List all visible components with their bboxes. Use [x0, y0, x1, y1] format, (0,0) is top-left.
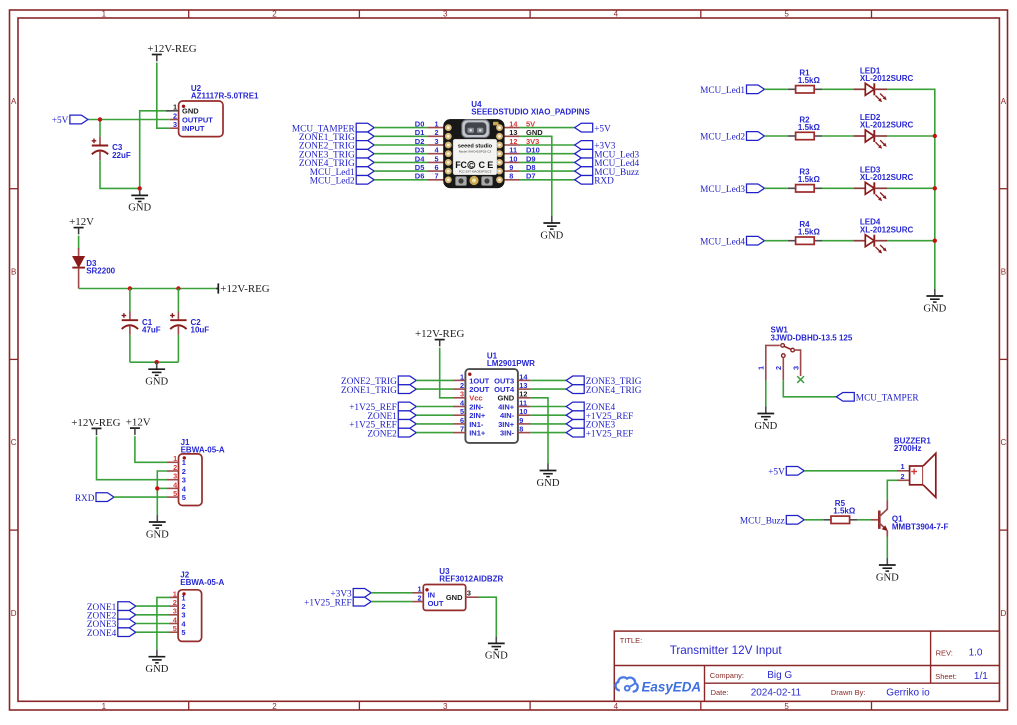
wire MCU_Led1 to R1: [765, 88, 788, 90]
wire J1 pin 4 tap: [157, 487, 167, 489]
wire +12V to D3 anode: [78, 236, 80, 250]
svg-text:GND: GND: [182, 107, 199, 116]
wire +1V25_REF to U1: [416, 423, 453, 425]
net flag ZONE2 (U1 left): [367, 428, 416, 439]
svg-text:5: 5: [182, 493, 186, 502]
svg-text:Vcc: Vcc: [469, 394, 482, 403]
svg-text:MCU_Led2: MCU_Led2: [310, 177, 355, 187]
wire MCU_Led2 to U4 pin 7: [374, 179, 428, 181]
svg-text:GND: GND: [498, 394, 515, 403]
svg-text:GND: GND: [540, 230, 563, 241]
svg-text:2024-02-11: 2024-02-11: [751, 687, 802, 698]
svg-text:XL-2012SURC: XL-2012SURC: [860, 121, 914, 130]
ground below C1/C2: [145, 362, 168, 387]
power flag +12V-REG (rail tap): [216, 283, 270, 295]
svg-text:5: 5: [173, 489, 177, 498]
svg-text:Date:: Date:: [711, 688, 729, 697]
junction C1 top: [128, 286, 132, 290]
capacitor C2 10uF: [170, 312, 209, 335]
wire MCU_Buzz to R5: [804, 519, 823, 521]
capacitor C1 47uF: [122, 312, 161, 335]
svg-text:ZONE4: ZONE4: [87, 629, 117, 639]
net flag ZONE3: [87, 619, 136, 630]
power flag +12V-REG (J1): [71, 417, 120, 435]
svg-text:EBWA-05-A: EBWA-05-A: [180, 578, 224, 587]
svg-text:OUT3: OUT3: [494, 376, 514, 385]
svg-text:GND: GND: [754, 421, 777, 432]
net flag +1V25_REF (U1 left): [349, 402, 416, 413]
junction C2 top: [176, 286, 180, 290]
svg-text:MCU_Led3: MCU_Led3: [700, 185, 745, 195]
svg-text:GND: GND: [145, 664, 168, 675]
svg-text:Model XIAO-ESP32-C3: Model XIAO-ESP32-C3: [459, 150, 492, 154]
svg-text:4: 4: [614, 702, 619, 711]
wire U4 to MCU_Led4: [520, 161, 575, 163]
wire R1 to LED1: [822, 88, 853, 90]
svg-text:1: 1: [173, 103, 177, 112]
resistor R3 1.5kOhm: [788, 168, 822, 192]
wire +12V-REG rail: [79, 288, 216, 290]
svg-text:5: 5: [784, 702, 789, 711]
LED2 XL-2012SURC: [853, 113, 913, 149]
wire ground rail: [130, 361, 179, 363]
svg-text:2IN-: 2IN-: [469, 402, 484, 411]
svg-text:EBWA-05-A: EBWA-05-A: [181, 445, 225, 454]
svg-text:Drawn By:: Drawn By:: [831, 688, 866, 697]
svg-text:B: B: [11, 268, 16, 277]
wire U3 GND to ground: [479, 597, 497, 636]
svg-text:1.5kΩ: 1.5kΩ: [833, 507, 856, 516]
wire C2 to ground rail: [177, 335, 179, 362]
net flag MCU_Led2 (LED): [700, 132, 764, 143]
svg-text:OUT: OUT: [428, 599, 444, 608]
svg-text:3: 3: [460, 390, 464, 399]
power flag +12V-REG (U1): [415, 328, 464, 346]
wire to C2: [177, 289, 179, 312]
svg-text:OUT4: OUT4: [494, 385, 515, 394]
svg-text:3: 3: [173, 472, 177, 481]
ground below C3/U2: [128, 188, 151, 213]
net flag +1V25_REF (U1 right): [566, 428, 633, 439]
svg-text:D: D: [11, 609, 17, 618]
svg-text:A: A: [1001, 97, 1007, 106]
svg-text:D4: D4: [415, 154, 425, 163]
net flag MCU_Led1 (LED): [700, 85, 764, 96]
net flag MCU_Led4 (U4): [575, 158, 640, 169]
svg-text:1.5kΩ: 1.5kΩ: [798, 123, 821, 132]
wire U4 to MCU_Led3: [520, 153, 575, 155]
wire Q1 emitter to ground: [886, 537, 888, 559]
net flag ZONE1_TRIG (U1 left): [341, 385, 416, 396]
svg-text:4IN+: 4IN+: [498, 402, 515, 411]
wire MCU_Led1 to U4 pin 6: [374, 170, 428, 172]
svg-text:Sheet:: Sheet:: [935, 672, 957, 681]
svg-text:SR2200: SR2200: [86, 266, 115, 275]
svg-text:1: 1: [173, 589, 177, 598]
svg-text:GND: GND: [145, 377, 168, 388]
svg-text:1: 1: [757, 366, 766, 370]
ground below Q1: [876, 558, 899, 583]
svg-text:8: 8: [509, 172, 513, 181]
module U4 SEEEDSTUDIO XIAO_PADPINS: [428, 119, 520, 187]
svg-text:3IN-: 3IN-: [500, 429, 515, 438]
net flag ZONE4 (U1 right): [566, 402, 615, 413]
svg-text:+12V-REG: +12V-REG: [71, 417, 120, 429]
wire MCU_TAMPER to U4 pin 1: [374, 127, 428, 129]
svg-text:REV:: REV:: [936, 648, 953, 657]
svg-text:GND: GND: [485, 651, 508, 662]
svg-text:5: 5: [435, 154, 439, 163]
wire U1 to ZONE4_TRIG: [530, 388, 566, 390]
wire U4 to RXD: [520, 179, 575, 181]
svg-text:2: 2: [901, 472, 905, 481]
wire MCU_Led3 to R3: [765, 187, 788, 189]
resistor R4 1.5kOhm: [788, 220, 822, 244]
svg-text:3: 3: [467, 589, 471, 598]
svg-text:3JWD-DBHD-13.5 125: 3JWD-DBHD-13.5 125: [771, 333, 853, 342]
net flag ZONE3_TRIG: [299, 149, 374, 160]
net flag ZONE2_TRIG (U1 left): [341, 376, 416, 387]
wire to C1: [129, 289, 131, 312]
svg-text:INPUT: INPUT: [182, 124, 205, 133]
svg-text:12: 12: [509, 137, 517, 146]
svg-text:GND: GND: [146, 529, 169, 540]
wire R2 to LED2: [822, 135, 853, 137]
svg-text:10: 10: [519, 407, 527, 416]
junction +5V node: [98, 117, 102, 121]
svg-text:4IN-: 4IN-: [500, 411, 515, 420]
net flag MCU_TAMPER: [836, 392, 919, 403]
svg-text:3: 3: [443, 702, 448, 711]
junction J1 pin 4: [155, 486, 159, 490]
wire U1 to ZONE3: [530, 423, 566, 425]
svg-text:D3: D3: [415, 146, 425, 155]
net flag RXD (U4): [575, 175, 614, 186]
svg-text:14: 14: [509, 120, 518, 129]
wire ZONE2_TRIG to U4 pin 3: [374, 144, 428, 146]
svg-text:1: 1: [102, 10, 107, 19]
ground below LEDs: [923, 289, 946, 314]
title block: [614, 631, 999, 701]
svg-text:TITLE:: TITLE:: [620, 636, 643, 645]
svg-text:ZONE1_TRIG: ZONE1_TRIG: [341, 386, 397, 396]
wire MCU_Led2 to R2: [765, 135, 788, 137]
junction LED bus: [933, 186, 937, 190]
svg-text:GND: GND: [128, 203, 151, 214]
net flag ZONE4: [87, 628, 136, 639]
net flag ZONE1_TRIG: [299, 132, 374, 143]
svg-text:3: 3: [173, 607, 177, 616]
wire ZONE2 to J2 pin 3: [136, 614, 170, 616]
net flag MCU_Led3 (U4): [575, 149, 640, 160]
wire +12V-REG to J1 pin 3: [97, 436, 168, 479]
wire +12V-REG to U2 INPUT: [157, 63, 170, 129]
svg-text:13: 13: [519, 381, 527, 390]
connector J2 EBWA-05-A body: [170, 590, 202, 642]
svg-text:1: 1: [901, 462, 905, 471]
svg-text:1: 1: [173, 454, 177, 463]
svg-text:3: 3: [173, 120, 177, 129]
svg-text:10uF: 10uF: [191, 326, 210, 335]
switch SW1 3JWD-DBHD-13.5 125: [757, 344, 801, 381]
wire +5V to U2 OUTPUT: [88, 119, 170, 121]
net flag MCU_Led2: [310, 175, 374, 186]
LED1 XL-2012SURC: [853, 66, 913, 102]
svg-text:EasyEDA: EasyEDA: [642, 680, 702, 695]
power flag +12V (J1): [126, 417, 151, 435]
net flag +1V25_REF (U3): [304, 597, 371, 608]
wire J2 pin 1 to ground: [157, 597, 170, 649]
svg-text:A: A: [11, 97, 17, 106]
svg-text:1.5kΩ: 1.5kΩ: [798, 76, 821, 85]
svg-text:2: 2: [173, 111, 177, 120]
wire R4 to LED4: [822, 240, 853, 242]
svg-text:ZONE4_TRIG: ZONE4_TRIG: [586, 386, 642, 396]
svg-text:+5V: +5V: [768, 468, 785, 478]
wire R3 to LED3: [822, 187, 853, 189]
svg-text:1: 1: [102, 702, 107, 711]
resistor R2 1.5kOhm: [788, 115, 822, 139]
svg-text:22uF: 22uF: [112, 151, 131, 160]
wire U1 to +1V25_REF: [530, 414, 566, 416]
svg-text:Transmitter 12V Input: Transmitter 12V Input: [670, 644, 783, 657]
wire +1V25_REF to U1: [416, 406, 453, 408]
svg-text:2: 2: [272, 702, 277, 711]
svg-text:7: 7: [435, 172, 439, 181]
svg-text:1OUT: 1OUT: [469, 376, 489, 385]
ground below J2: [145, 650, 168, 675]
wire +3V3 to U3 IN: [371, 592, 412, 594]
net flag MCU_Buzz (U4): [575, 167, 639, 178]
svg-text:2: 2: [435, 128, 439, 137]
net flag ZONE4_TRIG: [299, 158, 374, 169]
svg-text:IN1-: IN1-: [469, 420, 484, 429]
svg-text:seeed studio: seeed studio: [458, 143, 493, 149]
svg-text:2: 2: [418, 594, 422, 603]
op-amp U1 LM2901PWR body: [453, 369, 530, 443]
wire U1 to +1V25_REF: [530, 432, 566, 434]
wire MCU_Led4 to R4: [765, 240, 788, 242]
svg-text:D6: D6: [415, 172, 425, 181]
svg-text:3: 3: [182, 476, 186, 485]
svg-text:1: 1: [460, 372, 464, 381]
svg-text:GND: GND: [537, 478, 560, 489]
svg-text:+1V25_REF: +1V25_REF: [586, 429, 634, 439]
svg-text:IN1+: IN1+: [469, 429, 486, 438]
wire SW1 pin 2 to MCU_TAMPER: [783, 380, 836, 397]
svg-text:D1: D1: [415, 128, 425, 137]
svg-text:4: 4: [614, 10, 619, 19]
wire C1 to ground rail: [129, 335, 131, 362]
net flag +1V25_REF (U1 right): [566, 411, 633, 422]
ground below U3: [485, 636, 508, 661]
svg-text:AZ1117R-5.0TRE1: AZ1117R-5.0TRE1: [191, 91, 259, 100]
svg-text:+12V-REG: +12V-REG: [147, 43, 196, 55]
net flag +1V25_REF (U1 left): [349, 420, 416, 431]
svg-text:Gerriko io: Gerriko io: [886, 687, 930, 698]
svg-text:11: 11: [509, 146, 517, 155]
wire +5V to buzzer pin 1: [804, 470, 897, 472]
svg-text:D5: D5: [415, 163, 425, 172]
junction GND node: [138, 186, 142, 190]
svg-text:MCU_Led2: MCU_Led2: [700, 133, 745, 143]
wire ZONE1 to J2 pin 2: [136, 605, 170, 607]
diode D3 SR2200: [72, 248, 115, 289]
wire U4 GND to ground: [520, 136, 552, 216]
svg-text:GND: GND: [446, 593, 463, 602]
wire ZONE2 to U1: [416, 432, 453, 434]
svg-text:+5V: +5V: [52, 116, 69, 126]
svg-text:3: 3: [443, 10, 448, 19]
svg-text:GND: GND: [876, 572, 899, 583]
op-amp U2 AZ1117R-5.0TRE1 body: [166, 101, 223, 137]
wire U1 GND pin to ground: [530, 398, 548, 464]
svg-text:3: 3: [181, 611, 185, 620]
buzzer BUZZER1 2700Hz: [897, 453, 936, 497]
svg-text:3: 3: [435, 137, 439, 146]
ground below U1: [537, 464, 560, 489]
svg-text:2: 2: [173, 598, 177, 607]
svg-text:D2: D2: [415, 137, 425, 146]
svg-text:1.0: 1.0: [969, 647, 983, 658]
wire ZONE4_TRIG to U4 pin 5: [374, 161, 428, 163]
svg-text:3: 3: [792, 366, 801, 370]
wire +12V to J1 pin 1: [135, 436, 167, 462]
wire ZONE3 to J2 pin 4: [136, 623, 170, 625]
svg-text:2: 2: [173, 463, 177, 472]
svg-text:XL-2012SURC: XL-2012SURC: [860, 74, 914, 83]
regulator U3 REF3012AIDBZR body: [413, 585, 479, 611]
svg-text:D: D: [1001, 609, 1007, 618]
svg-text:11: 11: [519, 398, 527, 407]
svg-text:5: 5: [173, 624, 177, 633]
wire LED to bus: [887, 187, 935, 189]
wire R5 to Q1 base: [857, 519, 871, 521]
svg-text:OUTPUT: OUTPUT: [182, 115, 213, 124]
net flag MCU_Led4 (LED): [700, 236, 764, 247]
svg-text:C: C: [11, 438, 17, 447]
svg-text:5: 5: [460, 407, 464, 416]
wire +1V25_REF to U3 OUT: [371, 601, 412, 603]
svg-text:RXD: RXD: [75, 494, 95, 504]
net flag MCU_Led3 (LED): [700, 184, 764, 195]
ground below U4: [540, 216, 563, 241]
net flag MCU_TAMPER: [292, 123, 374, 134]
wire RXD to J1 pin 5: [114, 496, 167, 498]
svg-text:1.5kΩ: 1.5kΩ: [798, 175, 821, 184]
connector J1 EBWA-05-A body: [167, 454, 202, 506]
svg-text:6: 6: [435, 163, 439, 172]
svg-text:3IN+: 3IN+: [498, 420, 515, 429]
capacitor C3 22uF: [92, 137, 131, 160]
resistor R5 1.5kOhm: [823, 499, 857, 523]
net flag MCU_Led1: [310, 167, 374, 178]
svg-text:14: 14: [519, 372, 528, 381]
svg-text:+5V: +5V: [594, 124, 611, 134]
svg-text:+12V: +12V: [126, 417, 151, 429]
svg-text:XL-2012SURC: XL-2012SURC: [860, 225, 914, 234]
svg-text:8: 8: [519, 425, 523, 434]
net flag ZONE2: [87, 610, 136, 621]
svg-text:1: 1: [182, 458, 186, 467]
svg-text:9: 9: [509, 163, 513, 172]
svg-text:RXD: RXD: [594, 177, 614, 187]
wire +12V-REG to U1 Vcc: [440, 348, 453, 398]
svg-text:5: 5: [181, 628, 185, 637]
wire U4 to MCU_Buzz: [520, 170, 575, 172]
junction ground rail: [155, 360, 159, 364]
svg-text:MCU_TAMPER: MCU_TAMPER: [856, 394, 920, 404]
svg-text:2: 2: [272, 10, 277, 19]
svg-text:C: C: [1001, 438, 1007, 447]
ground below SW1: [754, 407, 777, 432]
svg-text:Company:: Company:: [710, 671, 744, 680]
svg-text:1.5kΩ: 1.5kΩ: [798, 228, 821, 237]
svg-text:2OUT: 2OUT: [469, 385, 489, 394]
svg-text:2: 2: [181, 602, 185, 611]
net flag MCU_Buzz: [740, 515, 804, 526]
svg-text:7: 7: [460, 425, 464, 434]
power flag +12V-REG (U2 input): [147, 43, 196, 61]
ground below J1: [146, 515, 169, 540]
wire ZONE2_TRIG to U1: [416, 379, 453, 381]
wire U1 to ZONE3_TRIG: [530, 379, 566, 381]
svg-text:13: 13: [509, 128, 517, 137]
wire LED to bus: [887, 135, 935, 137]
svg-text:IN: IN: [428, 590, 436, 599]
wire ZONE1_TRIG to U1: [416, 388, 453, 390]
wire ZONE3_TRIG to U4 pin 4: [374, 153, 428, 155]
wire C3 to ground: [100, 160, 140, 188]
net flag ZONE1 (U1 left): [367, 411, 416, 422]
LED3 XL-2012SURC: [853, 165, 913, 201]
svg-text:1: 1: [418, 585, 422, 594]
svg-text:5: 5: [784, 10, 789, 19]
net flag ZONE1: [87, 602, 136, 613]
svg-text:GND: GND: [923, 303, 946, 314]
wire buzzer pin 2 to Q1 collector: [887, 480, 897, 500]
svg-text:MCU_Led4: MCU_Led4: [700, 237, 745, 247]
svg-text:1/1: 1/1: [974, 671, 988, 682]
wire ZONE1 to U1: [416, 414, 453, 416]
svg-text:XL-2012SURC: XL-2012SURC: [860, 173, 914, 182]
net flag ZONE3 (U1 right): [566, 420, 615, 431]
transistor Q1 MMBT3904-7-F: [871, 501, 888, 537]
svg-text:10: 10: [509, 154, 517, 163]
svg-text:2: 2: [774, 366, 783, 370]
net flag +5V (U4): [575, 123, 611, 134]
power flag +12V (input): [69, 216, 94, 234]
svg-text:47uF: 47uF: [142, 326, 161, 335]
svg-text:B: B: [1001, 268, 1006, 277]
svg-text:+12V-REG: +12V-REG: [220, 283, 269, 295]
wire +5V to C3: [99, 120, 101, 137]
resistor R1 1.5kOhm: [788, 69, 822, 93]
svg-text:1: 1: [181, 593, 185, 602]
wire J1 pin 2 to ground: [157, 471, 167, 515]
EasyEDA logo: [616, 677, 701, 694]
net flag ZONE4_TRIG (U1 right): [566, 385, 642, 396]
svg-text:6: 6: [460, 416, 464, 425]
wire U4 3V3 to +3V3: [520, 144, 575, 146]
svg-text:12: 12: [519, 390, 527, 399]
svg-text:+12V: +12V: [69, 216, 94, 228]
svg-text:Big G: Big G: [767, 670, 792, 681]
svg-text:MMBT3904-7-F: MMBT3904-7-F: [892, 522, 949, 531]
junction LED bus: [933, 134, 937, 138]
svg-text:FCC-2XT-XIAOESP32C3: FCC-2XT-XIAOESP32C3: [459, 169, 492, 173]
net flag ZONE2_TRIG: [299, 141, 374, 152]
